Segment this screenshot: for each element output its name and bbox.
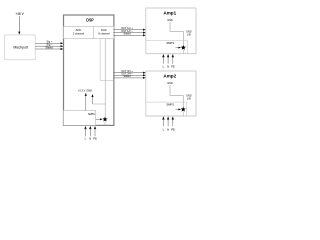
wire N into Amp1 [167,54,169,57]
svg-text:PE: PE [171,64,175,68]
svg-text:2 channel: 2 channel [73,32,85,36]
wire Shield Mischpult to DSP [35,48,61,50]
wire N into DSP SMPS [89,126,91,129]
wire L into DSP SMPS [84,126,86,129]
wire GND arrow up [92,96,94,104]
svg-text:8 channel: 8 channel [98,32,110,36]
wire SMPS to star arrow [96,118,101,120]
svg-text:Shield: Shield [124,33,132,36]
svg-text:GND: GND [167,82,173,85]
wire Shield DSP to Amp2 [113,77,143,79]
wire Sig- Mischpult to DSP [35,45,61,47]
svg-text:Shield: Shield [124,75,132,78]
wire GND to star vertical link [93,103,106,105]
svg-text:SMPS: SMPS [166,103,174,107]
svg-text:SMPS: SMPS [166,41,174,45]
block ADC 2 channel [64,27,114,39]
wire L into Amp1 [162,54,164,57]
svg-text:Amp2: Amp2 [163,74,176,79]
wire +48V arrow into Mischpult [18,16,20,32]
wire N into Amp2 [167,116,169,119]
block Amp2 [146,71,196,116]
wire OUT 1/2 + DSP to Amp1 [113,29,143,31]
svg-text:L/R: L/R [187,97,191,100]
svg-text:+48 V: +48 V [15,12,24,16]
block SMPS in Amp2 [146,102,187,116]
svg-text:N: N [167,127,169,131]
wire SMPS +3.3V arrow up [85,95,87,110]
wire OUT 1/2 - DSP to Amp1 [113,32,143,34]
wire Amp2 GND to star [170,85,183,107]
wire PE into Amp2 [172,116,174,119]
block SMPS in Amp1 [146,40,188,53]
svg-text:ADC: ADC [76,28,82,32]
wire star to Amp1 bottom [182,50,184,54]
wire Amp1 GND to star [170,22,183,45]
wire DAC to star vertical [104,39,106,117]
wire OUT 3/4 - DSP to Amp2 [113,74,143,76]
star ground DSP [102,117,107,122]
wire star to DSP bottom [104,121,106,125]
block SMPS in DSP [64,110,96,125]
wire L into Amp2 [162,116,164,119]
wire PE into Amp1 [172,54,174,57]
star ground Amp2 [181,107,186,112]
svg-text:Mischpult: Mischpult [13,45,27,49]
wire Shield DSP to Amp1 [113,34,143,36]
wire OUT 3/4 + DSP to Amp2 [113,72,143,74]
wire DAC branch vertical [100,39,113,81]
svg-text:SMPS: SMPS [88,113,95,116]
block Amp1 [146,8,196,54]
svg-text:N: N [167,64,169,68]
block DSP [64,15,114,125]
svg-text:GND: GND [86,89,92,93]
svg-text:GND: GND [167,19,173,22]
svg-text:PE: PE [171,127,175,131]
svg-text:DAC: DAC [101,28,107,32]
svg-text:+3.3 V: +3.3 V [78,89,86,93]
svg-text:L/R: L/R [187,33,191,36]
wire star to Amp2 bottom [182,112,184,116]
svg-text:PE: PE [93,136,97,140]
wire SMPS to star arrow Amp2 [176,108,180,110]
svg-text:DSP: DSP [86,18,93,23]
svg-text:N: N [89,136,91,140]
star ground Amp1 [181,45,186,50]
svg-text:Amp1: Amp1 [163,10,176,15]
wire SMPS to star arrow Amp1 [176,47,180,49]
wire Sig+ Mischpult to DSP [35,42,61,44]
svg-text:Shield: Shield [45,45,53,49]
block Mischpult [5,35,36,60]
wire PE into DSP SMPS [94,126,96,129]
